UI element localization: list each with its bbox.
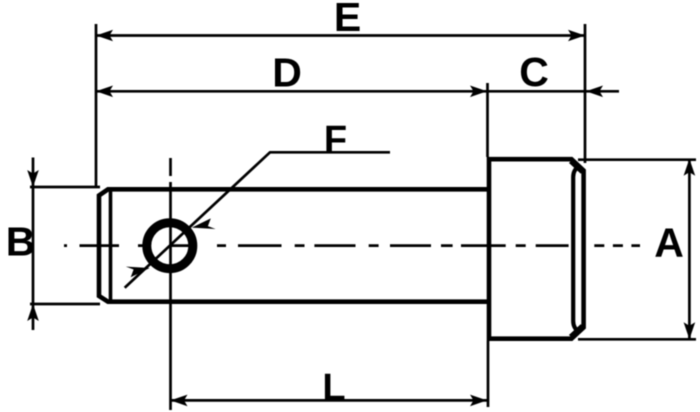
arrow F upper [192, 218, 216, 229]
head chamfer line [573, 166, 579, 332]
svg-text:A: A [654, 220, 684, 266]
arrow A bottom [684, 322, 696, 339]
svg-text:E: E [334, 0, 361, 40]
F leader line [125, 152, 390, 287]
extension line x=488 bottom (L) [487, 341, 490, 407]
head top-right chamfer corner [571, 161, 583, 172]
arrow A top [684, 159, 696, 176]
arrow D right / C left [470, 86, 487, 98]
svg-text:L: L [322, 367, 345, 409]
arrow F lower [126, 267, 150, 278]
extension line x=585 [584, 24, 587, 163]
arrow L right [470, 395, 487, 407]
pin left end chamfer line [109, 192, 113, 300]
arrow B top [27, 170, 39, 187]
pin body outline [99, 189, 489, 301]
B bottom extension [30, 303, 100, 306]
horizontal centerline [64, 244, 640, 247]
head outline [489, 159, 584, 339]
arrow D left [96, 86, 113, 98]
svg-text:C: C [519, 49, 549, 95]
arrow C right [586, 86, 603, 98]
arrow E right [568, 30, 585, 42]
svg-text:F: F [324, 119, 347, 161]
dimension D/C line [96, 90, 619, 93]
head bottom-right chamfer corner [571, 326, 583, 337]
arrow B bottom [27, 304, 39, 321]
arrow E left [96, 30, 113, 42]
A top extension [578, 158, 696, 161]
hole circle [147, 223, 193, 269]
B top extension [30, 186, 100, 189]
arrow L left [171, 395, 188, 407]
A bottom extension [578, 338, 696, 341]
dimension E line [96, 34, 585, 37]
extension line left x=96 [95, 24, 98, 187]
hole vertical centerline [169, 158, 172, 410]
svg-text:B: B [6, 219, 36, 265]
extension line x=487.5 top [486, 83, 489, 157]
dimension L line [171, 399, 488, 402]
dimension B line [32, 158, 35, 331]
dimension A line [688, 159, 691, 340]
svg-text:D: D [272, 50, 302, 96]
